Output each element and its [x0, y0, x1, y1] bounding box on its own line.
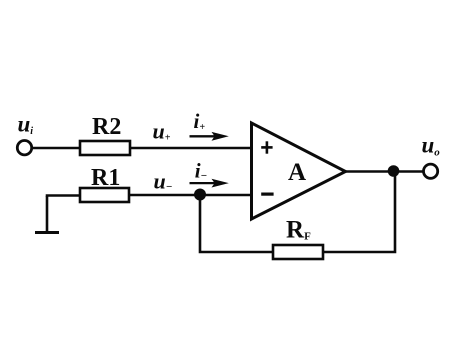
resistor R2 — [80, 141, 130, 155]
op-amp A — [252, 123, 346, 219]
wire R2 to op-amp + input — [130, 147, 252, 150]
wire RF to output junction — [323, 172, 395, 253]
svg-text:ui: ui — [18, 112, 34, 138]
node output junction — [388, 165, 400, 177]
svg-text:u−: u− — [154, 168, 173, 193]
current i- arrow — [190, 179, 229, 188]
svg-text:R1: R1 — [91, 165, 120, 191]
wire R1 to op-amp - input — [129, 194, 252, 197]
resistor RF — [273, 245, 323, 259]
svg-text:u+: u+ — [153, 119, 171, 144]
svg-text:R2: R2 — [92, 114, 121, 140]
wire op-amp output — [345, 170, 423, 173]
svg-text:A: A — [288, 159, 306, 186]
terminal u_i — [17, 141, 31, 155]
ground — [35, 196, 59, 233]
label + input — [261, 141, 272, 153]
wire ground to R1 — [46, 194, 80, 197]
terminal u_o — [424, 164, 438, 178]
svg-text:RF: RF — [286, 217, 311, 244]
wire input to R2 — [33, 147, 81, 150]
svg-text:i−: i− — [195, 158, 208, 182]
wire feedback: node down, along bottom to RF — [200, 195, 273, 252]
node u- junction — [194, 189, 206, 201]
svg-text:i+: i+ — [194, 109, 206, 133]
label - input — [261, 193, 273, 196]
current i+ arrow — [190, 132, 229, 141]
resistor R1 — [80, 188, 129, 202]
svg-text:uo: uo — [422, 133, 441, 159]
